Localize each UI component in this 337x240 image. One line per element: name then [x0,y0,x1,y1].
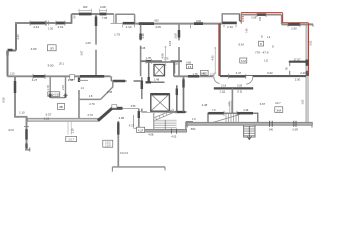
stair1 top wall hatch [175,111,185,113]
boxed label ZP [48,45,57,51]
entrance thin opening [123,108,140,110]
stair1 right wall hatch [182,79,184,87]
bay1 right wall [134,14,136,23]
bay1 top wall [115,13,134,15]
svg-text:ЗВ: ЗВ [59,105,63,109]
partition y97.6 connector [50,97,65,99]
svg-text:1.50: 1.50 [48,27,54,31]
bay1 left wall [115,14,117,23]
red hatch dashes [242,17,244,21]
svg-text:Б: Б [261,35,263,39]
svg-text:4.05: 4.05 [171,135,176,138]
wall right hatch b [306,71,308,76]
wall right edge double [306,24,308,122]
ticks corridor wall y61 [146,59,151,64]
corridor wall y61 hatch [146,60,151,63]
ticks top-left wall [30,21,65,26]
wall A step down [110,76,112,81]
svg-text:1.78: 1.78 [193,73,198,76]
boxed 0.8 [186,64,192,68]
svg-text:4.08: 4.08 [119,116,125,120]
svg-text:24.7: 24.7 [275,101,281,105]
wall left below A [14,77,16,117]
svg-text:1.Б: 1.Б [264,59,268,63]
bathroom left wall [289,63,291,76]
bay2 left wall [221,14,223,24]
svg-text:8.56: 8.56 [2,97,6,103]
stair1 top line [142,112,178,114]
partition x65.5 [65,76,67,97]
svg-text:4.37: 4.37 [236,71,242,75]
porch wall hatch [117,122,119,134]
svg-text:7.45: 7.45 [245,28,249,34]
svg-text:1.10: 1.10 [19,110,25,114]
diagonal hatched wall [98,108,113,121]
svg-text:1.48: 1.48 [154,77,160,81]
boxed label ZV [58,103,65,109]
wall top-main hatch 4 [194,22,203,25]
svg-text:6.9·0.9: 6.9·0.9 [120,152,128,155]
bathroom top wall [289,61,306,63]
apartment left wall red line [218,24,220,76]
svg-text:1.62: 1.62 [302,99,305,104]
svg-text:2.08: 2.08 [251,16,257,20]
svg-text:ЮМ: ЮМ [191,128,196,131]
door arc right [246,77,253,84]
partition x50 [49,76,51,97]
core right wall hatch [176,89,178,96]
bottom wall band [187,122,312,125]
red boundary corner vertical [240,13,242,24]
stair1 treads [154,120,176,129]
corridor bottom wall y61 [141,60,182,62]
stub tick [24,126,29,128]
elevator E2 cross [152,95,169,111]
svg-text:1.12: 1.12 [44,116,50,120]
wall top-2 hatch 2 [100,13,107,16]
stair2 top hatch b [237,112,253,115]
svg-text:2.0.9: 2.0.9 [105,144,111,147]
svg-text:0.28: 0.28 [237,83,243,87]
svg-text:ЖЗ: ЖЗ [202,71,207,75]
svg-text:1.8: 1.8 [89,94,93,98]
step up to main bottom wall [186,122,193,130]
wall x140 hatch b [141,81,144,90]
wall top-left [15,22,72,24]
core left wall [148,62,150,82]
ticks stair2 top [224,111,237,116]
bay2 bottom hatched sill [222,22,237,25]
svg-text:S.M: S.M [238,43,244,47]
wall x140 hatch a [139,34,142,40]
ticks top-right wall [288,22,300,27]
svg-text:20.1: 20.1 [59,61,65,65]
stair2 treads [226,114,239,124]
svg-text:4.06: 4.06 [155,25,161,29]
svg-text:2.70: 2.70 [87,113,93,117]
svg-text:2.76: 2.76 [89,102,95,106]
apartment left wall dark [219,24,221,76]
boxed 0.60 [48,92,60,97]
boxed porch labels [103,140,113,147]
core mid wall hatch [146,81,152,83]
wall left-lower [7,51,9,77]
wall A y76 [8,75,111,77]
core top wall y62 [146,61,175,63]
wall top-main right of bay1 [135,23,222,25]
dim ticks on top-main [179,25,190,29]
window gap ticks [47,21,49,26]
svg-text:2.48: 2.48 [141,33,145,39]
elevator shaft E2 [151,94,170,111]
ticks apartment bottom [229,74,246,79]
boxed ZhI [275,107,283,113]
wall under red hatch [257,13,266,16]
stair2 downflight box [244,124,255,137]
svg-text:2.20: 2.20 [300,71,306,75]
boxed label B [259,41,264,46]
svg-text:1.05: 1.05 [146,57,151,60]
partition hatch feet [50,94,65,98]
svg-text:5.61: 5.61 [308,40,312,46]
bottom wall left section [28,118,99,121]
bottom wall ticks 240 [270,121,273,127]
svg-text:2.35: 2.35 [210,74,215,77]
stair1 top thin line [140,110,147,112]
wall left hatch [14,81,17,93]
core left wall hatch [147,77,149,82]
hall wall y76 hatch [188,75,199,78]
apartment bottom red line [219,74,309,76]
svg-text:1200: 1200 [100,5,106,9]
core right wall upper [174,62,176,74]
red boundary top [241,12,282,14]
wall x179 hatch [178,30,181,38]
svg-text:1.8: 1.8 [192,118,196,121]
door symbol on wall A [70,75,75,80]
svg-text:745: 745 [259,16,262,21]
dim extension lines x230 [230,101,232,113]
svg-text:4.0Б: 4.0Б [148,133,154,137]
svg-text:17.57: 17.57 [294,58,301,62]
stair2 box [208,113,258,124]
wall top-left hatch 1 [30,22,46,25]
ticks partition bottoms [48,95,68,97]
assorted dimension ticks [30,12,300,116]
wall x179 vertical [178,25,180,77]
stair1 left wall [138,109,140,131]
dim line 1200 [100,9,107,13]
bay2 top wall [222,13,240,15]
svg-text:2.10: 2.10 [61,84,65,90]
svg-text:2.08: 2.08 [174,33,178,39]
svg-text:4.18: 4.18 [168,40,172,46]
stair1 right wall [183,77,185,112]
stub foot [25,148,30,152]
band end ticks [187,125,312,127]
stair1 left wall hatch [138,111,140,118]
svg-text:2.08: 2.08 [68,78,74,82]
bay2 right wall [240,14,242,21]
wall jog left [8,50,17,52]
svg-text:4.2Л: 4.2Л [138,128,144,132]
svg-text:9.90: 9.90 [48,63,54,67]
downflight arrow [247,126,252,140]
wall right hatch a [306,60,309,66]
svg-text:7.9: 7.9 [212,109,216,112]
bottom-left wall y116.8 [14,116,28,118]
svg-text:2.10: 2.10 [227,25,233,29]
stair2 ramp diagonal [210,114,241,123]
top-right wall end tick [312,24,314,26]
svg-text:900: 900 [83,5,88,9]
svg-text:2.10: 2.10 [126,25,132,29]
dim line 900 [79,9,92,13]
vestibule wall x133.5 [134,115,138,128]
svg-text:0.68: 0.68 [186,61,191,64]
core mid wall y82 [146,81,165,83]
corridor wall y99 [79,98,101,100]
downflight treads [244,126,255,135]
svg-text:4.44: 4.44 [33,25,39,29]
svg-text:ЖИ: ЖИ [277,108,282,112]
stub hatch [25,129,28,139]
wall x96 hatch [95,17,98,27]
red boundary right edge [308,23,310,76]
elevator E2 top dark wall [151,93,170,95]
red boundary top-right [283,22,309,24]
wall x140 vertical [141,25,142,112]
svg-text:S.M: S.M [241,59,247,63]
apartment bottom hatch [229,75,246,78]
svg-text:4.9Б: 4.9Б [161,53,165,59]
bay1 ticks [123,25,135,28]
jog y80 x79-88 [79,79,88,81]
window thin segment [106,13,113,15]
stair2 top hatch a [208,112,224,115]
stair1 top wall y112 [168,111,187,113]
svg-text:6.62: 6.62 [267,71,273,75]
hall center wall x232.4 [231,88,233,113]
svg-text:2.0.7: 2.0.7 [68,138,74,141]
wall step-up [71,14,73,24]
svg-text:ПЛ.- 47.9: ПЛ.- 47.9 [255,50,268,54]
stair1 flight hatch strokes [156,110,174,120]
wall jog hatch [8,50,13,56]
wall A hatch 2 [80,75,104,78]
hall left wall y76 continuation [174,75,214,77]
corridor diagonal thin [101,81,113,99]
junction white box [112,105,117,108]
svg-text:1.20: 1.20 [10,73,15,76]
wall top-right [282,23,314,25]
wall top-right hatch [288,23,300,26]
red boundary step-down [282,13,284,23]
dim line 4.95 apartment [214,47,216,74]
elevator shaft E1 [154,65,165,76]
porch bottom wall [112,166,165,168]
svg-text:1.5: 1.5 [227,102,231,106]
entrance hatched wall [113,107,123,110]
ticks wall A [33,74,45,79]
stair1 upper flight diagonal band [155,110,177,121]
hall bottom wall y88.3 [214,87,253,89]
svg-text:2.18: 2.18 [221,83,227,87]
wall left-upper [15,23,17,51]
wall B hatch [113,80,125,83]
wall top-main hatch 3 [139,22,154,25]
svg-text:ЗП: ЗП [50,46,54,50]
svg-text:2.1Д: 2.1Д [220,89,226,93]
wall x96 vertical [95,15,97,76]
svg-text:2.61: 2.61 [58,25,64,29]
wall x79 upper hatch [78,78,80,83]
svg-text:4.27: 4.27 [129,124,135,128]
boxed 2.0.7 [66,136,77,141]
stub hatch b [25,143,28,148]
stair1 left boundary [153,113,155,130]
svg-text:0.6Я: 0.6Я [293,129,298,132]
svg-text:2.00: 2.00 [295,77,301,81]
stair1 divider [164,120,166,130]
apartment bottom wall dark [220,75,306,77]
bay1 step vertical [113,14,115,23]
wall top-2 [72,13,114,15]
svg-text:2.60: 2.60 [291,26,297,30]
door arc left [214,77,220,83]
wall B y81 [111,80,140,82]
dim line room 4.9 [164,46,166,66]
bay2 ticks [224,25,236,28]
wall top-left hatch 2 [56,22,65,25]
svg-text:4.50: 4.50 [31,47,37,51]
stub wall x26.5 [26,117,28,150]
porch end tick [112,167,165,172]
svg-text:600: 600 [154,18,159,22]
svg-text:(7.5): (7.5) [237,89,242,93]
core right wall lower [176,85,178,111]
svg-text:Б: Б [260,42,262,46]
svg-text:0.98: 0.98 [140,47,145,50]
elevator E1 cross [155,65,164,75]
boxed 4.2 [137,127,145,132]
corridor right wall x173.8 [173,62,175,76]
svg-text:1.79: 1.79 [114,32,120,36]
svg-text:6.67: 6.67 [260,102,266,106]
wall A hatch 1 [33,75,45,78]
bay1 bottom hatched sill [123,22,135,25]
svg-text:2.67: 2.67 [80,50,84,56]
svg-text:2.08: 2.08 [107,90,113,94]
svg-text:3.48: 3.48 [243,109,248,112]
bottom wall ticks 06 [294,121,296,127]
ticks at stair1 wall [172,129,177,134]
svg-text:1.05: 1.05 [85,41,91,45]
wall step-down right [281,15,283,25]
wall x79 lower [78,90,80,118]
porch wall vertical [117,121,119,167]
stair1 bottom slab [138,129,187,132]
svg-text:4.48: 4.48 [202,103,208,107]
svg-text:7.35: 7.35 [173,63,178,66]
dim extension lines x68 x71 [68,122,71,135]
svg-text:7.95: 7.95 [102,16,108,20]
svg-text:2.55: 2.55 [131,105,136,108]
svg-text:Ж.М: Ж.М [8,128,13,132]
svg-text:2.20: 2.20 [16,34,20,40]
svg-text:240: 240 [269,129,274,132]
svg-text:4.95: 4.95 [210,55,214,61]
svg-text:0.60: 0.60 [196,19,202,23]
bay1 thin sill [111,22,123,24]
ticks red top wall [257,12,266,17]
boxed ZhZ [201,70,208,75]
wall under red top [242,14,282,16]
svg-text:1.78: 1.78 [46,85,50,91]
boxed label S.M [240,58,247,63]
wall top-2 hatch 1 [79,13,92,16]
